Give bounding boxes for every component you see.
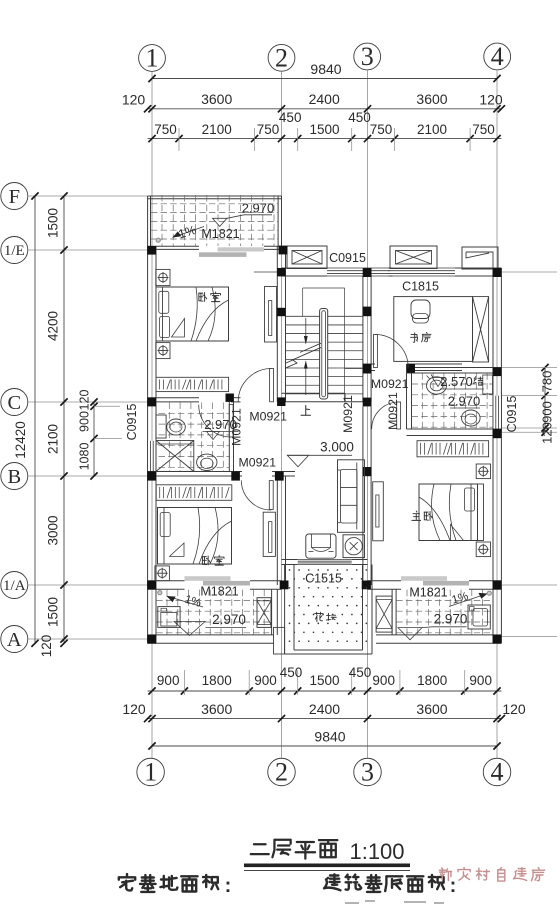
- svg-text:3: 3: [361, 758, 374, 787]
- master desk west: [373, 482, 384, 541]
- right chain 780-900-120 for window C0915: [544, 368, 546, 433]
- stair direction arrows: [304, 336, 308, 345]
- right wall window C0915 glazing (bathroom2): [493, 396, 501, 432]
- dim line 120-3600-2400-3600-120 bottom: [148, 718, 502, 720]
- stair east wall col3 upper: [362, 276, 364, 402]
- dim line total 9840 bottom: [152, 745, 497, 747]
- col3 wall living section C to 1/A with opening: [362, 407, 364, 432]
- left exterior wall col1: [147, 246, 149, 643]
- structural columns: [147, 246, 156, 255]
- left wall window C0915 glazing (bathroom1): [148, 441, 156, 473]
- svg-text::: :: [450, 875, 457, 897]
- window C1815 study glazing: [388, 267, 455, 269]
- living south wall with C1515 window: [282, 559, 298, 561]
- svg-text:120: 120: [78, 390, 92, 411]
- bedroom2 nightstand: [155, 566, 170, 581]
- left balcony east boundary wall: [271, 589, 273, 635]
- B wall row left: bath1/bedroom2: [148, 471, 242, 473]
- stair landing edge line: [345, 368, 363, 370]
- B wall stub east of col2: [282, 471, 296, 473]
- stair break line: [285, 347, 321, 368]
- svg-text:750: 750: [370, 122, 393, 137]
- svg-text:450: 450: [349, 665, 372, 680]
- svg-text:C0915: C0915: [329, 251, 366, 265]
- flower bed dotted fill: [290, 570, 367, 641]
- bedroom1 desk shelf east: [265, 287, 277, 343]
- svg-text:C1815: C1815: [402, 280, 439, 294]
- svg-text:2.970: 2.970: [448, 394, 481, 409]
- bedroom2 bed: [158, 508, 232, 565]
- svg-text:2: 2: [275, 43, 288, 72]
- bathroom2 floor tile hatch: [412, 383, 493, 385]
- svg-text:1: 1: [146, 44, 159, 73]
- vertical axis lines through plan (cols 1-4): [151, 72, 153, 759]
- svg-text:4: 4: [491, 758, 504, 787]
- 1/A wall left: bedroom2 south with M1821 opening: [148, 580, 185, 582]
- row lines extending right of building: [501, 271, 557, 273]
- bedroom1 label woshi: [199, 292, 207, 301]
- svg-text:3.000: 3.000: [320, 440, 354, 455]
- dim line 900-1800-900-450-1500-450-900-1800-900 bottom: [148, 690, 502, 692]
- left balcony slope arrow 1%: [167, 596, 204, 607]
- svg-text:900: 900: [540, 401, 555, 423]
- svg-text:B: B: [7, 466, 21, 488]
- svg-text:M1821: M1821: [409, 586, 447, 600]
- svg-text:120: 120: [122, 701, 146, 717]
- svg-text:12420: 12420: [13, 421, 28, 459]
- svg-text:F: F: [9, 186, 20, 208]
- left overall dim line 12420: [34, 196, 36, 643]
- title ercengpingmian 1:100: [251, 844, 269, 854]
- svg-text:3: 3: [361, 42, 374, 71]
- svg-text:4200: 4200: [46, 311, 61, 341]
- right balcony X column box: [376, 596, 392, 632]
- balcony south wall A row left: [148, 634, 274, 636]
- svg-text:9840: 9840: [314, 729, 345, 745]
- svg-text:C: C: [7, 392, 21, 414]
- sliding door M1821 top (grey bars): [199, 252, 247, 257]
- study chair: [411, 300, 430, 319]
- bedroom1 nightstand bottom: [156, 343, 170, 359]
- stair west wall col2: [276, 246, 278, 402]
- svg-text:3600: 3600: [201, 91, 232, 107]
- top balcony slope arrow 1%: [173, 227, 205, 238]
- svg-text:750: 750: [472, 122, 495, 137]
- study south wall segment east of door: [408, 363, 462, 365]
- svg-text:450: 450: [280, 665, 303, 680]
- svg-text:120: 120: [502, 701, 526, 717]
- svg-text:2.970: 2.970: [434, 612, 468, 627]
- master wardrobe: [417, 441, 489, 457]
- right balcony slope arrow 1%: [449, 594, 488, 607]
- bathroom1 east wall: [228, 402, 230, 472]
- top balcony walls (thin): [148, 195, 282, 197]
- svg-text:9840: 9840: [310, 61, 341, 77]
- svg-text:M0921: M0921: [249, 410, 287, 424]
- dim line 750-2100-750-450-1500-450-750-2100-750 top: [148, 138, 502, 140]
- C wall row: bedroom1/bath1 south wall: [148, 397, 199, 399]
- door M0921 bedroom2 (leaf south, swings west): [269, 481, 273, 510]
- sliding door M1821 master (grey bars): [401, 576, 447, 581]
- watermark xinnongcun zijianfang: [439, 868, 451, 880]
- stair center rail: [320, 309, 328, 400]
- label zhaijidi mianji (homestead area): [119, 874, 135, 890]
- grid circles bottom: axes 1-4: [137, 758, 165, 787]
- svg-text:2100: 2100: [417, 122, 447, 137]
- svg-text:900: 900: [254, 673, 277, 688]
- svg-text:450: 450: [348, 110, 371, 125]
- door M0921 bedroom1 (C wall, leaf north, swings west): [270, 369, 274, 402]
- cut-off text remnants bottom edge: [345, 901, 444, 903]
- svg-text:M0921: M0921: [386, 392, 400, 430]
- svg-text:900: 900: [372, 673, 395, 688]
- svg-text:1800: 1800: [202, 673, 232, 688]
- dim line total 9840 top: [152, 78, 497, 80]
- bedroom1 wardrobe: [156, 377, 229, 391]
- bathroom1 floor tile hatch: [159, 412, 230, 414]
- svg-text:900: 900: [157, 673, 180, 688]
- svg-text:2100: 2100: [202, 122, 232, 137]
- dim line 120-3600-2400-3600-120 top: [148, 108, 502, 110]
- left balcony X column box: [257, 598, 271, 628]
- master nightstand top: [476, 464, 490, 479]
- master label zhuwo: [412, 511, 421, 520]
- title underline double rule: [244, 864, 410, 868]
- bathroom1 shower with X: [156, 441, 194, 472]
- label jianzhu jidi mianji (building footprint area): [324, 874, 340, 890]
- svg-text:2.970: 2.970: [212, 612, 246, 627]
- bathroom1 toilet: [197, 454, 217, 470]
- stair treads: [286, 315, 363, 317]
- bathroom2 sink: [427, 377, 447, 394]
- stair well upper outline: [302, 288, 304, 316]
- living armchair: [306, 534, 336, 558]
- C wall stair south wall: [282, 392, 346, 394]
- label shang (up): [301, 406, 311, 416]
- window C1515 glazing: [298, 559, 352, 561]
- svg-text:1500: 1500: [309, 122, 339, 137]
- bedroom1 nightstand top: [156, 269, 170, 285]
- svg-text:2100: 2100: [46, 424, 61, 454]
- bathroom2 toilet: [462, 410, 481, 426]
- svg-text:3600: 3600: [416, 91, 447, 107]
- 1/A wall right: master south with M1821 opening: [368, 580, 402, 582]
- grid circles left: rows F,1/E,C,B,1/A,A: [1, 183, 28, 210]
- left inner chain 120-900-1080 for window C0915: [93, 402, 95, 476]
- svg-text:780: 780: [540, 371, 555, 393]
- svg-text:1:100: 1:100: [349, 839, 404, 864]
- svg-text:M0921: M0921: [238, 456, 276, 470]
- window C0915 stair top glazing: [327, 267, 390, 269]
- right balcony west boundary wall: [391, 589, 393, 635]
- master nightstand bottom: [476, 542, 490, 557]
- svg-text:1080: 1080: [78, 443, 92, 471]
- flue box with X right (over study window): [390, 246, 437, 269]
- svg-text:C0915: C0915: [505, 396, 519, 433]
- col2 wall bedroom2 section B to 1/A: [276, 476, 278, 585]
- svg-text:C0915: C0915: [125, 404, 139, 441]
- flower bed label huatan: [315, 612, 323, 621]
- flower bed enclosure: [284, 565, 286, 655]
- svg-text:1: 1: [144, 758, 157, 787]
- study closet with X: [473, 297, 489, 362]
- bathroom2 walls (right): [407, 367, 502, 369]
- svg-text:120: 120: [122, 92, 146, 108]
- bay box top-right corner: [462, 247, 498, 269]
- svg-text:3600: 3600: [201, 701, 232, 717]
- svg-text:2.970: 2.970: [204, 417, 237, 432]
- svg-text:4: 4: [491, 42, 504, 71]
- right balcony floor drain: [487, 591, 491, 595]
- bedroom1 bed: [156, 287, 229, 341]
- svg-text:2400: 2400: [309, 91, 340, 107]
- door M0921 bathroom1 (leaf south into bath, swings west): [229, 405, 233, 437]
- right balcony tile hatch: [396, 599, 492, 601]
- svg-text:1500: 1500: [46, 208, 61, 238]
- left balcony washing machine: [158, 607, 180, 628]
- master bed: [419, 484, 478, 541]
- svg-text:2400: 2400: [309, 701, 340, 717]
- svg-text:M1821: M1821: [201, 227, 239, 241]
- svg-text:M1821: M1821: [200, 585, 238, 599]
- svg-text:C1515: C1515: [305, 572, 342, 586]
- svg-text:750: 750: [257, 122, 280, 137]
- svg-text:3600: 3600: [416, 701, 447, 717]
- right balcony washing machine: [468, 605, 490, 629]
- living side table with circled X: [343, 535, 365, 558]
- svg-text:2: 2: [275, 758, 288, 787]
- flue box with X left of stair window: [287, 246, 327, 269]
- top balcony tile hatch: [151, 203, 278, 205]
- svg-text:2.970: 2.970: [242, 201, 275, 216]
- main top wall y268-276 from col2 to right: [282, 267, 328, 269]
- left balcony floor drain: [158, 591, 162, 595]
- svg-text:120: 120: [39, 635, 54, 658]
- living sofa: [338, 460, 365, 533]
- bedroom1 top wall at 1/E with M1821 opening: [148, 245, 199, 247]
- study table: [394, 297, 473, 362]
- svg-text:120: 120: [479, 92, 503, 108]
- bathroom1 sink counter and basin: [156, 415, 166, 438]
- svg-text::: :: [225, 875, 232, 897]
- svg-text:900: 900: [469, 673, 492, 688]
- door M0921 bathroom2 (leaf at wall, swings west into lobby): [397, 402, 401, 429]
- svg-text:1500: 1500: [46, 597, 61, 627]
- window C0915 label (stair top): [328, 250, 367, 264]
- balcony south wall A row right: [376, 634, 501, 636]
- top balcony floor drain: [156, 238, 160, 242]
- left balcony tile hatch: [156, 599, 271, 601]
- svg-text:A: A: [7, 629, 22, 651]
- svg-text:2.570: 2.570: [440, 374, 473, 389]
- door M0921 study (leaf north, swings east): [374, 335, 378, 368]
- sliding door M1821 bedroom2 (grey bars): [185, 576, 231, 581]
- svg-text:750: 750: [154, 122, 177, 137]
- svg-text:1800: 1800: [417, 673, 447, 688]
- svg-text:120: 120: [540, 422, 555, 444]
- svg-text:1500: 1500: [309, 673, 339, 688]
- svg-text:3000: 3000: [46, 515, 61, 545]
- grid circles top: axes 1-4: [139, 44, 166, 73]
- right exterior wall col4: [492, 268, 494, 643]
- svg-text:1/A: 1/A: [3, 578, 26, 594]
- svg-text:1/E: 1/E: [4, 243, 25, 259]
- svg-text:M0921: M0921: [341, 395, 355, 433]
- flower bed left connector stub: [274, 627, 285, 654]
- bedroom2 wardrobe: [156, 485, 232, 501]
- horizontal axis row lines from left circles to building: [28, 195, 148, 197]
- bedroom2 desk shelf east: [263, 512, 275, 556]
- left chain dim line 1500-4200-2100-3000-1500-120: [63, 196, 65, 643]
- bedroom2 label woshi: [202, 556, 210, 565]
- svg-text:M0921: M0921: [371, 377, 409, 391]
- svg-text:900: 900: [78, 411, 92, 432]
- study label shufang: [411, 333, 418, 342]
- beam line bedroom1 NE: [254, 271, 277, 273]
- svg-text:450: 450: [279, 110, 302, 125]
- master headboard: [478, 484, 484, 541]
